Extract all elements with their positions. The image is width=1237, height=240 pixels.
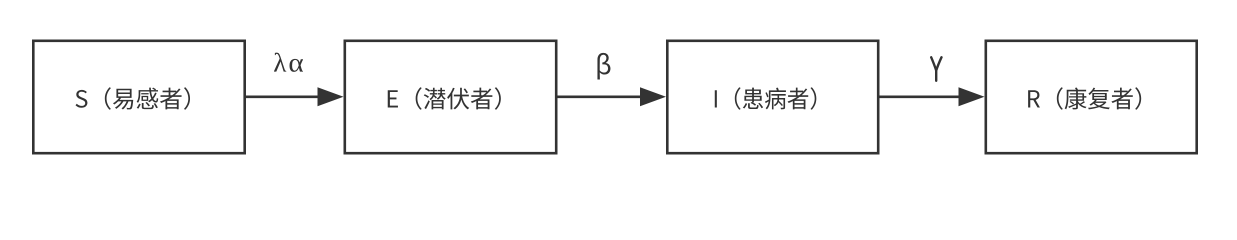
- label λα (transition rate S to E): [274, 53, 303, 72]
- box R (R（康复者）): [986, 41, 1197, 153]
- label R（康复者）: [1028, 87, 1141, 109]
- arrowhead I to R: [959, 87, 985, 106]
- box E (E（潜伏者）): [345, 41, 556, 153]
- label S（易感者）: [76, 87, 191, 109]
- wire arrow S to E: [246, 96, 320, 99]
- label β (transition rate E to I): [597, 53, 610, 80]
- wire arrow I to R: [880, 96, 961, 99]
- label γ (transition rate I to R): [931, 57, 941, 81]
- box I (I（患病者）): [667, 41, 878, 153]
- arrowhead S to E: [318, 87, 344, 106]
- label E（潜伏者）: [388, 87, 501, 109]
- wire arrow E to I: [558, 96, 643, 99]
- label I（患病者）: [715, 87, 817, 109]
- arrowhead E to I: [640, 87, 666, 106]
- box S (S（易感者）): [33, 41, 244, 153]
